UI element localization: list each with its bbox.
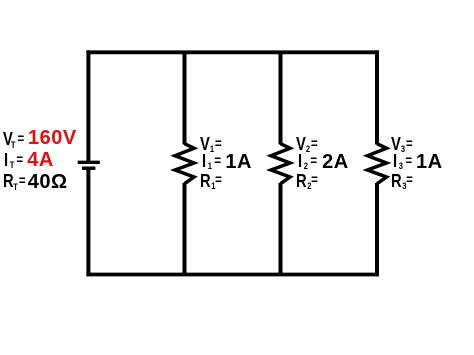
label V3= xyxy=(391,135,413,153)
resistor R3 xyxy=(368,144,387,184)
wire branch 1 upper lead xyxy=(183,52,187,144)
label V2= xyxy=(296,135,318,153)
battery BT1 positive plate xyxy=(78,161,100,164)
wire branch 3 lower lead xyxy=(375,183,379,276)
label I3= xyxy=(393,152,412,170)
resistor R1 xyxy=(175,144,194,184)
battery BT1 negative plate xyxy=(82,166,95,169)
value 160V xyxy=(28,128,77,148)
wire left vertical upper (battery top lead) xyxy=(86,50,90,162)
resistor R2 xyxy=(271,144,290,184)
label I2= xyxy=(298,152,317,170)
value 40 ohm xyxy=(28,172,68,192)
label VT= xyxy=(3,130,24,148)
value 2A branch 2 xyxy=(322,152,349,172)
value 1A branch 3 xyxy=(416,152,443,172)
label IT= xyxy=(4,151,23,169)
value 1A branch 1 xyxy=(225,152,252,172)
label V1= xyxy=(200,135,222,153)
label I1= xyxy=(202,152,221,170)
wire top rail xyxy=(86,50,379,54)
label R1= xyxy=(200,172,222,190)
wire bottom rail xyxy=(86,273,379,277)
wire branch 3 upper lead (right side) xyxy=(375,50,379,144)
wire branch 2 lower lead xyxy=(279,183,283,275)
wire branch 2 upper lead xyxy=(279,52,283,144)
label R3= xyxy=(391,172,413,190)
label RT= xyxy=(3,172,26,190)
value 4A xyxy=(27,150,54,170)
wire branch 1 lower lead xyxy=(183,183,187,275)
label R2= xyxy=(296,172,318,190)
wire left vertical lower (battery bottom lead) xyxy=(86,168,90,276)
